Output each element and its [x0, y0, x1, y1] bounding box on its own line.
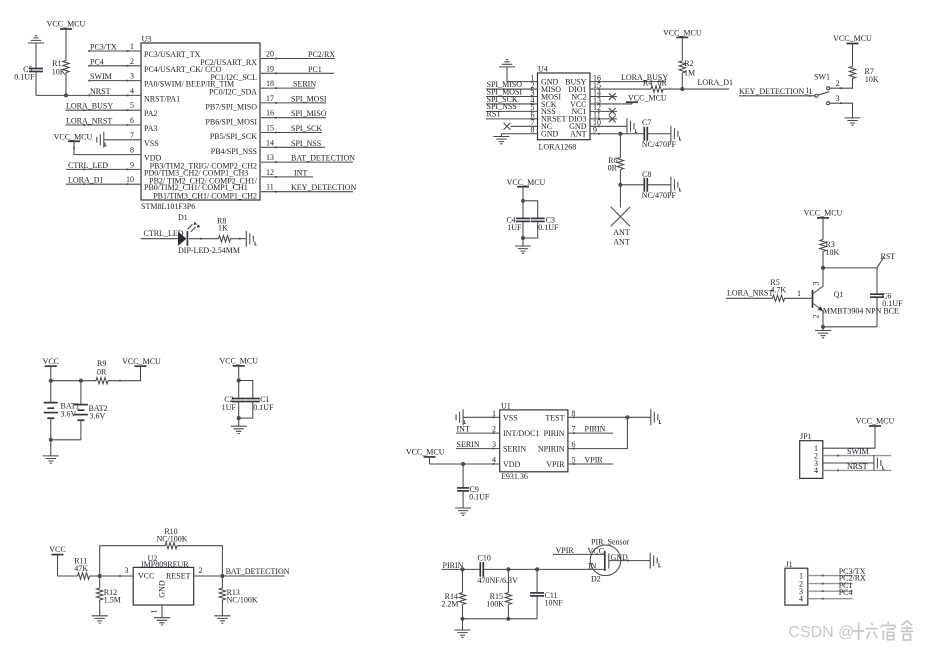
wire JP1.3 to ground — [823, 462, 874, 464]
svg-text:D2: D2 — [591, 575, 601, 584]
svg-text:2: 2 — [812, 315, 821, 319]
ground (C4/C3) — [515, 246, 531, 253]
IC U3 body — [141, 43, 260, 200]
wire R8 to ground — [231, 238, 247, 240]
wire RST to U4.6 — [486, 118, 538, 120]
junction C2/C1 bottom — [237, 416, 241, 420]
svg-text:9: 9 — [593, 126, 597, 135]
svg-text:0R: 0R — [608, 164, 618, 173]
capacitor C10 — [479, 562, 481, 577]
svg-text:VPIR: VPIR — [585, 455, 604, 464]
svg-text:C8: C8 — [642, 170, 651, 179]
no-connect X U4.11 — [609, 115, 616, 122]
svg-text:VCC_MCU: VCC_MCU — [54, 133, 93, 142]
svg-text:VSS: VSS — [503, 413, 518, 422]
wire J1.1 — [808, 575, 853, 577]
svg-text:4: 4 — [814, 466, 818, 475]
svg-text:6: 6 — [130, 116, 134, 125]
wire C8 to ground — [647, 184, 671, 186]
wire SW1.2 to R7 — [830, 79, 853, 89]
junction ANT/C7 — [618, 132, 622, 136]
wire to C7 — [620, 133, 644, 135]
wire CTRL_LED to U3.9 — [66, 168, 141, 170]
svg-text:VCC_MCU: VCC_MCU — [219, 357, 258, 366]
svg-text:4: 4 — [130, 86, 134, 95]
svg-text:VCC_MCU: VCC_MCU — [406, 448, 445, 457]
wire J1.3 — [808, 590, 853, 592]
ground (battery) — [43, 456, 59, 463]
svg-text:VCC: VCC — [588, 546, 604, 555]
svg-text:SERIN: SERIN — [457, 440, 480, 449]
wire D1 to R8 — [189, 238, 219, 240]
svg-text:SPI_MOSI: SPI_MOSI — [291, 94, 327, 103]
wire NRST to U3.4 — [127, 95, 129, 97]
junction NRST/R1 — [64, 93, 68, 97]
ground (U4.10) — [627, 118, 634, 134]
junction R13 — [220, 574, 224, 578]
ground (R12) — [92, 616, 108, 623]
ground at U3.7 VSS — [97, 132, 104, 148]
svg-text:TEST: TEST — [545, 413, 564, 422]
wire SW1.3 to ground — [830, 103, 853, 118]
svg-text:BAT_DETECTION: BAT_DETECTION — [226, 567, 290, 576]
svg-text:47K: 47K — [74, 564, 88, 573]
wire rail to ground — [462, 619, 464, 630]
wire NRST net — [36, 94, 141, 96]
svg-text:PB6/SPI_MOSI: PB6/SPI_MOSI — [205, 117, 257, 126]
svg-text:PB7/SPI_MISO: PB7/SPI_MISO — [205, 103, 257, 112]
svg-text:1UF: 1UF — [222, 403, 237, 412]
IC U4 body — [538, 73, 591, 140]
junction rail R15 — [506, 617, 510, 621]
svg-text:10K: 10K — [865, 75, 879, 84]
svg-text:D1: D1 — [178, 213, 188, 222]
battery BAT1 — [50, 381, 52, 403]
svg-text:15: 15 — [266, 124, 274, 133]
svg-text:STM8L101F3P6: STM8L101F3P6 — [141, 202, 195, 211]
wire KEY_DETECTION_1 to SW1 — [739, 95, 815, 97]
svg-text:VCC_MCU: VCC_MCU — [507, 178, 546, 187]
svg-text:U3: U3 — [142, 35, 152, 44]
svg-text:VCC_MCU: VCC_MCU — [47, 20, 86, 29]
svg-text:J1: J1 — [786, 560, 793, 569]
wire R3 to collector — [822, 252, 824, 268]
wire JP1.1 to VCC_MCU — [823, 426, 875, 448]
svg-text:R9: R9 — [97, 359, 106, 368]
wire LORA_BUSY from U4.16 — [590, 81, 665, 83]
svg-text:RST: RST — [487, 110, 502, 119]
wire U4.14 — [590, 96, 617, 98]
resistor R6 — [617, 158, 623, 170]
svg-text:3: 3 — [130, 72, 134, 81]
wire ANT to R6 — [619, 134, 621, 158]
wire J1.4 — [808, 598, 853, 600]
antenna ANT X mark — [611, 207, 630, 226]
wire U3.8 — [74, 141, 141, 154]
wire SWIM from JP1.2 — [823, 455, 891, 457]
svg-text:0R: 0R — [658, 79, 668, 88]
svg-text:PIRIN: PIRIN — [544, 429, 565, 438]
IC U1 body — [500, 410, 568, 472]
svg-text:VCC: VCC — [138, 572, 154, 581]
junction C4/C3 top — [521, 199, 525, 203]
svg-text:R2: R2 — [684, 59, 693, 68]
svg-text:SERIN: SERIN — [293, 80, 316, 89]
svg-text:3: 3 — [812, 282, 821, 286]
wire R7 bottom — [852, 79, 854, 89]
svg-text:PA2: PA2 — [144, 109, 158, 118]
wire R13 to ground — [221, 600, 223, 616]
svg-text:7: 7 — [130, 131, 134, 140]
svg-text:DIP-LED-2.54MM: DIP-LED-2.54MM — [178, 246, 240, 255]
resistor R10 feedback — [100, 546, 165, 576]
transistor Q1 — [812, 290, 814, 308]
wire U4.10 GND — [590, 125, 627, 127]
wire TEST from U1.8 — [568, 416, 651, 418]
svg-text:3.6V: 3.6V — [90, 411, 106, 420]
svg-text:VCC_MCU: VCC_MCU — [833, 34, 872, 43]
svg-text:PC4: PC4 — [839, 588, 853, 597]
svg-text:PIRIN: PIRIN — [443, 561, 464, 570]
svg-text:INT: INT — [457, 424, 470, 433]
wire U1.1 — [463, 416, 500, 418]
svg-text:PA3: PA3 — [144, 124, 158, 133]
wire LORA_NRST to R5 — [726, 297, 773, 299]
wire SPI_MOSI from U3.17 — [261, 102, 326, 104]
svg-text:RESET: RESET — [166, 572, 191, 581]
wire VDD — [430, 463, 500, 465]
svg-text:VSS: VSS — [144, 139, 159, 148]
wire KEY_DETECTION from U3.11 — [261, 191, 353, 193]
svg-text:ANT: ANT — [613, 228, 630, 237]
power VCC_MCU at U4.13 — [626, 101, 638, 103]
no-connect X U4.14 — [609, 93, 616, 100]
svg-text:CTRL_LED: CTRL_LED — [68, 161, 108, 170]
wire R2 to LORA_D1 — [681, 73, 683, 89]
IC U2 body — [133, 567, 194, 605]
svg-text:R4: R4 — [643, 79, 652, 88]
svg-text:BAT_DETECTION: BAT_DETECTION — [291, 154, 355, 163]
ground (SW1) — [845, 118, 861, 125]
svg-text:3: 3 — [125, 566, 129, 575]
wire emitter to ground — [823, 326, 877, 328]
svg-text:LORA_BUSY: LORA_BUSY — [66, 102, 113, 111]
power VCC_MCU (R9) — [135, 365, 147, 367]
wire U4.12 — [590, 110, 617, 112]
junction R6/C8 — [618, 183, 622, 187]
junction R14 — [460, 567, 464, 571]
svg-text:SERIN: SERIN — [503, 445, 526, 454]
wire C9 to ground — [462, 491, 464, 508]
wire SERIN to U1.3 — [456, 448, 500, 450]
wire SPI_SCK to U4.4 — [486, 103, 538, 105]
wire U2.1 to ground — [161, 605, 163, 618]
svg-text:1: 1 — [150, 610, 159, 614]
wire VCC to R11 — [58, 575, 78, 577]
resistor R4 — [651, 86, 663, 92]
svg-text:PB5/SPI_SCK: PB5/SPI_SCK — [210, 132, 257, 141]
capacitor C6 — [876, 268, 878, 294]
resistor R11 — [78, 573, 90, 579]
wire C11 bottom — [536, 596, 538, 619]
svg-text:14: 14 — [266, 138, 274, 147]
svg-text:1: 1 — [806, 86, 810, 95]
resistor R15 — [507, 569, 509, 592]
svg-text:0.1UF: 0.1UF — [469, 493, 490, 502]
svg-text:2: 2 — [199, 566, 203, 575]
svg-text:5: 5 — [130, 101, 134, 110]
wire RST net — [823, 267, 877, 269]
resistor R1 — [63, 61, 69, 73]
ground (C9) — [455, 508, 471, 515]
svg-text:1K: 1K — [218, 223, 228, 232]
svg-text:PB2/ TIM2_CH2/ COMP2_CH1/: PB2/ TIM2_CH2/ COMP2_CH1/ — [149, 177, 258, 186]
svg-text:GND: GND — [158, 580, 167, 598]
wire U4.13 VCC — [590, 103, 632, 105]
wire INT to U1.2 — [456, 432, 500, 434]
svg-text:SWIM: SWIM — [90, 72, 112, 81]
wire PIRIN to C10 — [441, 568, 480, 570]
junction BAT2 — [79, 379, 83, 383]
junction battery gnd — [49, 438, 53, 442]
svg-text:10K: 10K — [826, 248, 840, 257]
connector J1 body — [785, 568, 808, 605]
wire INT from U3.12 — [261, 176, 313, 178]
svg-text:16: 16 — [266, 109, 274, 118]
wire D2 GND — [609, 560, 650, 562]
wire R4 to LORA_D1 — [663, 88, 729, 90]
wire VPIR to D2 — [553, 553, 605, 555]
svg-text:CTRL_LED: CTRL_LED — [144, 229, 184, 238]
svg-text:0.1UF: 0.1UF — [14, 73, 35, 82]
wire PIRIN from U1.7 — [568, 432, 613, 434]
wire to ANT — [619, 185, 621, 208]
svg-text:10: 10 — [126, 175, 134, 184]
svg-text:U1: U1 — [501, 401, 511, 410]
wire LORA_BUSY to U3.5 — [66, 109, 142, 111]
wire LORA_NRST to U3.6 — [66, 124, 142, 126]
svg-text:C7: C7 — [642, 118, 651, 127]
no-connect X U4.12 — [609, 108, 616, 115]
wire U4.9 ANT — [590, 133, 620, 135]
svg-text:JP1: JP1 — [800, 432, 812, 441]
ground (U2.1) — [154, 618, 170, 625]
svg-text:NRST: NRST — [847, 462, 868, 471]
svg-text:VDD: VDD — [503, 460, 521, 469]
junction R12 — [98, 574, 102, 578]
wire U4.7 — [511, 125, 538, 127]
wire PIR bottom rail — [463, 618, 538, 620]
svg-text:VCC_MCU: VCC_MCU — [804, 209, 843, 218]
wire U4.11 — [590, 118, 617, 120]
PIR sensor D2 — [590, 545, 621, 576]
svg-text:PC3/TX: PC3/TX — [90, 43, 117, 52]
svg-text:PC1: PC1 — [308, 65, 322, 74]
ground (TEST) — [651, 409, 658, 425]
svg-text:NRST/PA1: NRST/PA1 — [144, 94, 180, 103]
junction C11 — [535, 567, 539, 571]
ground (U4.8) — [493, 137, 509, 144]
svg-text:PB1/TIM3_CH1/ COMP1_CH2: PB1/TIM3_CH1/ COMP1_CH2 — [153, 191, 257, 200]
capacitor C1 — [246, 398, 260, 400]
wire R11 to U2.3 — [90, 575, 134, 577]
wire to C8 — [620, 184, 644, 186]
wire SPI_MISO from U3.16 — [261, 117, 326, 119]
svg-text:PC2/RX: PC2/RX — [308, 50, 335, 59]
junction R2/LORA_D1 — [680, 87, 684, 91]
svg-text:SPI_MISO: SPI_MISO — [291, 109, 327, 118]
svg-text:CSDN @: CSDN @ — [788, 624, 854, 641]
wire SERIN from U3.18 — [261, 87, 315, 89]
resistor R5 — [773, 295, 785, 301]
capacitor C7 — [643, 127, 645, 141]
wire NPIRIN loop — [568, 417, 628, 448]
svg-text:INT/DOC1: INT/DOC1 — [503, 429, 539, 438]
svg-text:0.1UF: 0.1UF — [538, 223, 559, 232]
svg-text:NC/100K: NC/100K — [156, 534, 187, 543]
svg-text:1M: 1M — [684, 69, 695, 78]
wire R1 bottom to NRST — [65, 73, 67, 96]
svg-text:8: 8 — [130, 146, 134, 155]
svg-text:13: 13 — [266, 153, 274, 162]
wire C2/C1 bottom — [238, 402, 240, 419]
wire SPI_MISO to U4.2 — [486, 88, 538, 90]
svg-text:17: 17 — [266, 94, 274, 103]
no-connect X U4.7 — [504, 123, 511, 130]
svg-text:PB3/TIM2_TRIG/ COMP2_CH2: PB3/TIM2_TRIG/ COMP2_CH2 — [150, 162, 257, 171]
svg-text:PC1/I2C_SCL: PC1/I2C_SCL — [210, 73, 257, 82]
wire R15 bottom — [507, 605, 509, 619]
wire SPI_SCK from U3.15 — [261, 132, 322, 134]
LED D1 — [178, 232, 186, 246]
wire U3.7 — [104, 139, 141, 141]
svg-text:LORA_NRST: LORA_NRST — [727, 288, 773, 297]
resistor R9 — [96, 378, 108, 384]
wire U2.2 to BAT_DETECTION — [194, 575, 285, 577]
wire to ground — [238, 418, 240, 426]
wire PC1 from U3.19 — [261, 72, 334, 74]
svg-text:10NF: 10NF — [545, 599, 564, 608]
svg-text:LORA1268: LORA1268 — [539, 143, 577, 152]
svg-text:IN: IN — [588, 562, 597, 571]
svg-text:VCC: VCC — [43, 357, 59, 366]
wire SWIM to U3.3 — [89, 80, 142, 82]
wire LORA_D1 to U3.10 — [66, 183, 141, 185]
ground (JP1.3) — [874, 455, 881, 471]
junction C2/C1 top — [237, 378, 241, 382]
svg-text:VCC: VCC — [49, 545, 65, 554]
svg-text:SPI_SCK: SPI_SCK — [291, 124, 322, 133]
svg-text:4.7K: 4.7K — [770, 285, 786, 294]
svg-text:MMBT3904 NPN BCE: MMBT3904 NPN BCE — [823, 306, 899, 315]
ground (PIR rail) — [455, 630, 471, 637]
svg-text:8: 8 — [531, 126, 535, 135]
resistor R13 — [221, 576, 223, 588]
junction emitter — [821, 325, 825, 329]
svg-text:PC3/USART_TX: PC3/USART_TX — [144, 50, 201, 59]
wire U4.8 GND — [501, 134, 537, 137]
svg-text:PB4/SPI_NSS: PB4/SPI_NSS — [211, 147, 257, 156]
ground (C2/C1) — [231, 426, 247, 433]
wire NRST from JP1.4 — [823, 469, 891, 471]
svg-text:470NF/6.3V: 470NF/6.3V — [478, 576, 518, 585]
svg-text:1.5M: 1.5M — [104, 596, 121, 605]
svg-text:0.1UF: 0.1UF — [253, 403, 274, 412]
svg-text:INT: INT — [294, 168, 307, 177]
capacitor C4 — [522, 201, 524, 219]
svg-text:NPIRIN: NPIRIN — [538, 445, 565, 454]
capacitor C3 — [531, 217, 545, 219]
svg-text:C10: C10 — [478, 554, 491, 563]
svg-text:VPIR: VPIR — [556, 546, 575, 555]
ground (U1.1) — [456, 409, 463, 425]
svg-text:SWIM: SWIM — [847, 447, 869, 456]
wire SPI_NSS to U4.5 — [486, 110, 538, 112]
ground above U4.1 — [499, 60, 515, 67]
svg-text:KEY_DETECTION: KEY_DETECTION — [291, 183, 357, 192]
svg-text:Q1: Q1 — [834, 290, 844, 299]
wire VPIR from U1.5 — [568, 463, 613, 465]
svg-text:PC2/USART_RX: PC2/USART_RX — [200, 58, 257, 67]
wire C4/C3 bottom — [522, 221, 524, 238]
svg-text:3: 3 — [836, 94, 840, 103]
junction BAT1 — [49, 379, 53, 383]
svg-text:1UF: 1UF — [507, 223, 522, 232]
battery BAT2 — [80, 381, 82, 405]
wire CTRL_LED to D1 — [141, 238, 178, 240]
svg-text:LORA_NRST: LORA_NRST — [66, 117, 112, 126]
resistor R14 — [462, 569, 464, 592]
svg-text:E931.36: E931.36 — [501, 472, 528, 481]
wire SPI_MOSI to U4.3 — [486, 96, 538, 98]
ground (Q1) — [815, 331, 831, 338]
svg-text:RST: RST — [881, 252, 896, 261]
svg-text:IMP809REUR: IMP809REUR — [141, 560, 189, 569]
svg-text:10K: 10K — [52, 67, 66, 76]
svg-text:2: 2 — [836, 79, 840, 88]
svg-text:KEY_DETECTION_1: KEY_DETECTION_1 — [739, 87, 812, 96]
ground (above C5) — [28, 36, 44, 43]
resistor R2 — [679, 61, 685, 73]
junction C9 — [461, 462, 465, 466]
capacitor C8 — [643, 178, 645, 192]
svg-text:PIR_Sensor: PIR_Sensor — [591, 538, 630, 547]
wire PC3/TX to U3.1 — [89, 50, 142, 52]
capacitor C9 — [462, 464, 464, 488]
svg-text:SPI_NSS: SPI_NSS — [291, 139, 321, 148]
svg-text:2.2M: 2.2M — [441, 599, 458, 608]
svg-text:NC/100K: NC/100K — [227, 596, 258, 605]
svg-text:VCC_MCU: VCC_MCU — [663, 28, 702, 37]
svg-text:4: 4 — [799, 595, 803, 604]
svg-text:20: 20 — [266, 50, 274, 59]
svg-text:19: 19 — [266, 64, 274, 73]
junction TEST/NPIRIN — [625, 415, 629, 419]
ground (R13) — [214, 616, 230, 623]
power VCC_MCU (JP1) — [869, 425, 881, 427]
svg-text:VCC_MCU: VCC_MCU — [628, 93, 667, 102]
svg-text:U4: U4 — [538, 65, 548, 74]
svg-text:18: 18 — [266, 79, 274, 88]
svg-text:PC4: PC4 — [90, 57, 104, 66]
resistor R7 — [849, 67, 855, 79]
resistor R8 — [219, 236, 231, 242]
resistor R3 — [820, 240, 826, 252]
resistor R12 — [99, 576, 101, 588]
wire C10 to junctions — [483, 568, 604, 570]
connector JP1 body — [800, 441, 823, 479]
svg-text:VCC_MCU: VCC_MCU — [856, 417, 895, 426]
